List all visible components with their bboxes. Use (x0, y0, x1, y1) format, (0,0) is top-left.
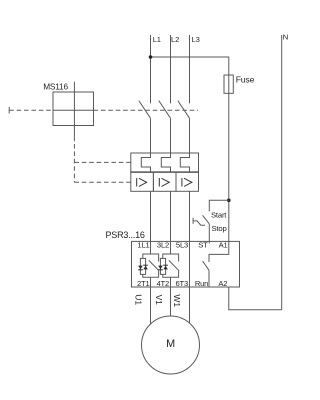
wire to Run terminal (208, 270, 210, 287)
svg-text:L3: L3 (192, 35, 200, 44)
wire pole1 to PSR (150, 191, 152, 241)
svg-text:1L1: 1L1 (137, 241, 149, 250)
bypass contact phase 2 (169, 260, 179, 270)
bypass contact phase 1 (149, 260, 159, 270)
svg-text:V1: V1 (154, 295, 164, 306)
thermal element phase 2 (161, 153, 170, 172)
MS116 actuator vertical (73, 82, 75, 137)
start button NO contact (203, 215, 210, 224)
thyristor box phase 2 (160, 258, 165, 274)
linkage dashed vertical (73, 137, 75, 183)
magnetic trip box 3 (176, 172, 199, 191)
svg-text:5L3: 5L3 (176, 241, 188, 250)
stop button linkage (193, 221, 205, 225)
wire A2 to N (229, 287, 282, 310)
thermal overload box (131, 153, 199, 172)
svg-text:L2: L2 (171, 35, 179, 44)
svg-text:W1: W1 (172, 294, 182, 307)
breaker Q1 pole 3 (178, 101, 190, 119)
svg-text:A2: A2 (218, 279, 227, 288)
phase 1 rejoin (143, 270, 159, 277)
linkage end tick (8, 107, 10, 114)
thyristor box phase 1 (140, 258, 145, 274)
svg-text:M: M (166, 338, 175, 350)
fuse F1 (224, 75, 233, 93)
svg-text:2T1: 2T1 (137, 279, 150, 288)
I> symbol 2 (159, 178, 169, 187)
MS116 actuator horizontal inside box (53, 109, 94, 111)
thyristor pair phase 1 (138, 265, 148, 271)
node junction L1-fuse (149, 55, 153, 59)
wire to ST (208, 224, 210, 244)
thermal element phase 1 (141, 153, 150, 172)
node junction start-branch (227, 199, 231, 203)
magnetic trip box 1 (131, 172, 154, 191)
svg-text:Fuse: Fuse (236, 74, 255, 84)
wire U1 to motor (150, 287, 152, 325)
breaker Q1 pole 2 (159, 101, 171, 119)
svg-text:Run: Run (195, 279, 208, 288)
phase 2 rejoin (163, 270, 179, 277)
wire 4T2 (170, 241, 172, 287)
wire W1 to motor (189, 287, 191, 324)
wire 2T1 (150, 241, 152, 287)
linkage dashed left (9, 109, 53, 111)
svg-text:Stop: Stop (212, 224, 227, 233)
wire L3 (189, 35, 191, 103)
wire 5L3-6T3 straight (189, 241, 191, 287)
svg-text:ST: ST (198, 241, 208, 250)
svg-text:4T2: 4T2 (157, 279, 170, 288)
run contact (203, 261, 209, 270)
thyristor branch phase 2 split (163, 254, 179, 262)
wire to fuse (151, 57, 229, 75)
magnetic trip box 2 (153, 172, 176, 191)
linkage dashed to thermal (74, 161, 130, 163)
svg-text:PSR3...16: PSR3...16 (106, 230, 145, 240)
motor M1 circle (142, 316, 200, 374)
wire pole2 to PSR (170, 191, 172, 241)
wire pole3 to PSR (189, 191, 191, 241)
svg-text:U1: U1 (134, 294, 144, 305)
thyristor branch phase 1 split (143, 254, 159, 262)
internal run contact wiring (209, 241, 229, 262)
thyristor pair phase 2 (158, 265, 168, 271)
svg-text:N: N (283, 33, 288, 42)
wire L2 (170, 35, 172, 103)
thermal element phase 3 (180, 153, 189, 172)
svg-text:Start: Start (211, 210, 227, 219)
thermal/magnetic shared edge (131, 171, 199, 173)
I> symbol 1 (137, 178, 147, 187)
svg-text:6T3: 6T3 (176, 279, 189, 288)
softstarter U1 PSR box (132, 241, 240, 287)
svg-text:L1: L1 (153, 35, 161, 44)
linkage dashed right (94, 109, 199, 111)
wire V1 to motor (170, 287, 172, 316)
linkage dashed to magnetic (74, 181, 130, 183)
MS116 box (53, 92, 94, 126)
svg-text:A1: A1 (219, 241, 228, 250)
wire fuse to A1 (228, 93, 230, 241)
breaker Q1 pole 1 (139, 101, 151, 119)
stop button actuator bar (192, 218, 194, 224)
wire L1 (150, 35, 152, 103)
start branch wire (209, 200, 229, 211)
svg-text:3L2: 3L2 (157, 241, 169, 250)
svg-text:MS116: MS116 (43, 82, 68, 92)
wire N (281, 35, 283, 310)
I> symbol 3 (182, 178, 192, 187)
